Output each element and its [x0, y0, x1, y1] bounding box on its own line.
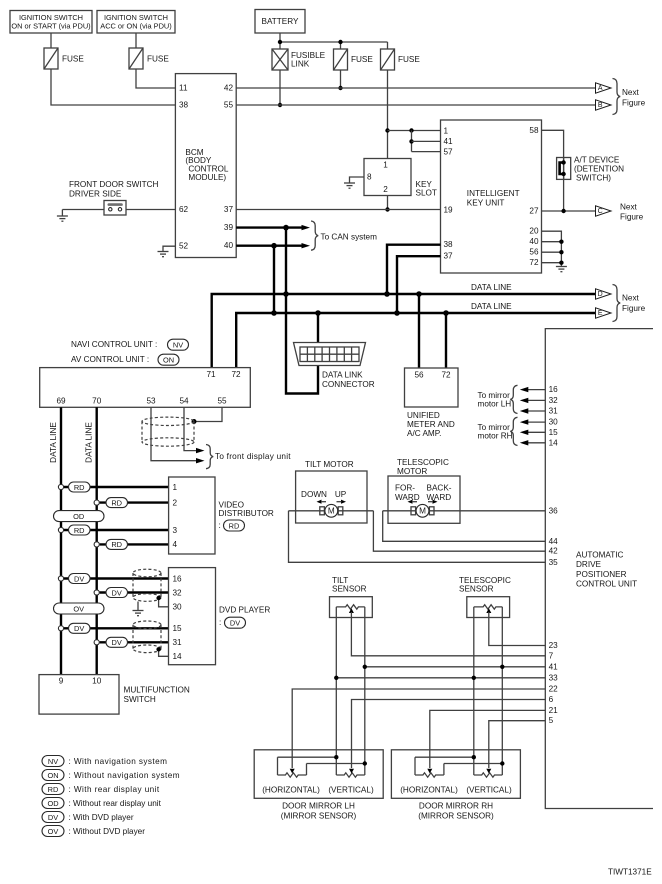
- wire IKU58 to AT device to IKU27 line: [542, 130, 564, 211]
- branch RD3 to VD pin3: [58, 525, 168, 535]
- unified meter and AC amp box: [405, 368, 459, 438]
- shield cable symbol 15/31: [133, 621, 161, 653]
- svg-text:FUSE: FUSE: [398, 55, 420, 64]
- svg-text:72: 72: [529, 258, 539, 267]
- svg-text:C: C: [598, 208, 603, 215]
- svg-text:FRONT DOOR SWITCH: FRONT DOOR SWITCH: [69, 180, 159, 189]
- wire fuse2 to BCM pin11: [136, 69, 175, 88]
- automatic drive positioner control unit box: [545, 329, 653, 809]
- ground key slot: [344, 183, 355, 188]
- svg-text:14: 14: [173, 652, 183, 661]
- svg-text:Figure: Figure: [620, 213, 644, 222]
- wire ignition2 to fuse2: [135, 33, 137, 48]
- wire line B BCM55 to next figure: [236, 104, 595, 106]
- connector OD spanning both wires: [54, 511, 105, 522]
- svg-text:1: 1: [383, 160, 388, 169]
- svg-text:SENSOR: SENSOR: [332, 585, 367, 594]
- svg-text:SWITCH: SWITCH: [124, 695, 156, 704]
- svg-text:71: 71: [206, 370, 216, 379]
- svg-text:2: 2: [383, 185, 388, 194]
- brace mirror motor LH: [510, 385, 517, 413]
- node telescopic sensor left on bus33: [472, 676, 476, 680]
- svg-text:72: 72: [231, 370, 241, 379]
- svg-text:5: 5: [549, 716, 554, 725]
- svg-text:DATA LINE: DATA LINE: [471, 302, 512, 311]
- wire pin33 bus: [336, 677, 545, 679]
- svg-text:: With rear display unit: : With rear display unit: [69, 785, 160, 794]
- svg-text:motor RH: motor RH: [478, 432, 513, 441]
- node mirror LH rail2 junction: [363, 761, 367, 765]
- svg-text::: :: [219, 521, 221, 530]
- BCM box (body control module): [175, 74, 236, 258]
- svg-text::: :: [219, 618, 221, 627]
- svg-text:LINK: LINK: [291, 60, 310, 69]
- svg-text:1: 1: [444, 126, 449, 135]
- svg-text:POSITIONER: POSITIONER: [576, 570, 627, 579]
- svg-text:Figure: Figure: [622, 304, 646, 313]
- svg-text:DV: DV: [48, 813, 58, 822]
- brace next figure AB: [613, 79, 621, 115]
- wire shield to DVD pin14: [159, 650, 169, 657]
- svg-text:A/C AMP.: A/C AMP.: [407, 429, 441, 438]
- wire IKU pin56: [542, 251, 562, 253]
- wire ignition1 to fuse1: [50, 33, 52, 48]
- svg-text:DOOR MIRROR RH: DOOR MIRROR RH: [419, 801, 493, 810]
- svg-text:A/T DEVICE: A/T DEVICE: [574, 155, 620, 164]
- brace mirror motor RH: [510, 417, 517, 445]
- svg-text:: With DVD player: : With DVD player: [69, 813, 134, 822]
- wire fusible link to line B: [279, 70, 281, 105]
- wire shield to DVD pin30: [159, 599, 169, 607]
- shield cable symbol 53/54: [142, 417, 194, 446]
- svg-text:FUSE: FUSE: [147, 55, 169, 64]
- svg-text:A: A: [598, 85, 603, 92]
- wire tilt motor right to pin42: [373, 511, 545, 551]
- svg-text:31: 31: [549, 407, 559, 416]
- svg-text:E: E: [598, 310, 603, 317]
- svg-text:WARD: WARD: [427, 493, 452, 502]
- svg-text:38: 38: [179, 101, 189, 110]
- svg-text:DVD PLAYER: DVD PLAYER: [219, 606, 270, 615]
- wire 69 vertical: [60, 407, 62, 674]
- node tilt sensor left on bus33: [334, 676, 338, 680]
- wire pin14 to mirror motor RH: [527, 442, 546, 444]
- wire data line 1: [212, 294, 596, 368]
- svg-text:FUSE: FUSE: [62, 55, 84, 64]
- legend OV: [42, 826, 145, 837]
- svg-text:36: 36: [549, 506, 559, 515]
- svg-text:41: 41: [444, 137, 454, 146]
- svg-text:(VERTICAL): (VERTICAL): [328, 786, 374, 795]
- legend OD: [42, 798, 162, 809]
- svg-text:AUTOMATIC: AUTOMATIC: [576, 551, 624, 560]
- wire IKU pin72: [542, 262, 562, 264]
- wire pin5 to mirror RH vertical wiper: [489, 721, 546, 768]
- svg-text:DISTRIBUTOR: DISTRIBUTOR: [219, 509, 274, 518]
- svg-text:11: 11: [179, 84, 188, 93]
- svg-text:39: 39: [224, 223, 234, 232]
- svg-text:B: B: [598, 102, 603, 109]
- wire mirror RH rail 2: [444, 763, 502, 765]
- svg-text:Figure: Figure: [622, 98, 646, 107]
- branch DV4 to DVD pin31: [94, 637, 168, 647]
- fuse F1: [44, 48, 84, 69]
- wire telescopic sensor right terminal down to mirror RH: [501, 607, 503, 775]
- node battery junction: [278, 40, 282, 44]
- mirror RH vertical potentiometer: [474, 769, 503, 778]
- svg-text:44: 44: [549, 537, 559, 546]
- wire IKU37 to data line2: [397, 256, 441, 313]
- wire IKU pin1: [388, 130, 441, 132]
- node pin40 junction: [559, 240, 563, 244]
- svg-text:OD: OD: [47, 799, 58, 808]
- fuse F2: [129, 48, 169, 69]
- svg-text:ACC or ON (via PDU): ACC or ON (via PDU): [100, 22, 171, 31]
- arrow E: [596, 308, 612, 318]
- svg-text:69: 69: [56, 396, 66, 405]
- svg-text:NAVI CONTROL UNIT :: NAVI CONTROL UNIT :: [71, 340, 157, 349]
- svg-text:To CAN system: To CAN system: [321, 232, 378, 241]
- svg-text:42: 42: [549, 547, 559, 556]
- svg-text:DV: DV: [112, 638, 122, 647]
- svg-text:CONNECTOR: CONNECTOR: [322, 380, 375, 389]
- svg-text:37: 37: [444, 252, 454, 261]
- wire IKU pin40: [542, 241, 562, 243]
- node mirror LH rail1 junction: [334, 755, 338, 759]
- wire fuse1 to BCM pin38: [51, 69, 175, 105]
- mirror LH horizontal potentiometer: [278, 757, 307, 777]
- branch DV2 to DVD pin32: [94, 588, 168, 598]
- svg-text:16: 16: [173, 574, 183, 583]
- wire pin31 to mirror motor LH: [527, 410, 546, 412]
- svg-text:KEY UNIT: KEY UNIT: [467, 199, 505, 208]
- node mirror RH rail1 junction: [472, 755, 476, 759]
- arrow up-right: [337, 500, 347, 504]
- wire IKU pin41 branch: [411, 131, 413, 152]
- svg-text:1: 1: [173, 483, 178, 492]
- wire unified meter 72: [445, 313, 447, 368]
- svg-text:70: 70: [92, 396, 102, 405]
- wire door switch to BCM62: [126, 209, 175, 211]
- legend RD: [42, 784, 160, 795]
- ground door switch: [57, 210, 68, 222]
- wire pin6 to mirror LH vertical wiper: [352, 700, 546, 769]
- multifunction switch box: [39, 675, 190, 715]
- svg-text:55: 55: [217, 396, 227, 405]
- svg-text:RD: RD: [111, 498, 122, 507]
- wire data line 2: [236, 313, 595, 368]
- wire unified meter 56: [418, 294, 420, 368]
- svg-text:9: 9: [59, 676, 64, 685]
- svg-text:56: 56: [414, 371, 424, 380]
- svg-text:OV: OV: [73, 604, 84, 613]
- branch RD4 to VD pin4: [94, 539, 169, 549]
- node fuse F3 branch: [338, 40, 342, 44]
- wire BCM52 to ground: [163, 246, 175, 251]
- svg-text:BACK-: BACK-: [427, 484, 452, 493]
- svg-text:WARD: WARD: [395, 493, 420, 502]
- svg-text:14: 14: [549, 438, 559, 447]
- wire line A BCM42 to next figure: [236, 87, 595, 89]
- branch RD1 to VD pin1: [58, 482, 168, 492]
- brace to front display: [206, 445, 213, 469]
- wire pin22 to mirror LH horizontal wiper: [292, 689, 545, 768]
- svg-text:OD: OD: [73, 512, 84, 521]
- svg-text:TELESCOPIC: TELESCOPIC: [397, 458, 449, 467]
- svg-text:Next: Next: [622, 88, 640, 97]
- svg-text:UNIFIED: UNIFIED: [407, 411, 440, 420]
- wire IKU38 to data line1: [387, 245, 441, 294]
- svg-text:57: 57: [444, 147, 454, 156]
- box battery: [255, 10, 305, 34]
- key slot box: [364, 159, 437, 198]
- shield cable symbol 16/32: [133, 569, 161, 601]
- video distributor box: [169, 477, 274, 554]
- wire battery bus to fuses: [280, 41, 388, 43]
- svg-text:27: 27: [529, 207, 539, 216]
- svg-text:AV CONTROL UNIT :: AV CONTROL UNIT :: [71, 355, 149, 364]
- branch RD2 to VD pin2: [94, 498, 169, 508]
- svg-text:55: 55: [224, 101, 234, 110]
- data link connector symbol: [294, 343, 366, 366]
- wire tilt sensor right terminal down to mirror LH: [364, 607, 366, 775]
- svg-text:motor LH: motor LH: [478, 400, 512, 409]
- svg-text:37: 37: [224, 205, 234, 214]
- wire vertical CAN39 to data line1 and DLC: [286, 228, 318, 394]
- svg-text:DATA LINE: DATA LINE: [49, 422, 58, 463]
- wire IKU pin20 to ground bus: [542, 231, 562, 266]
- svg-text:(MIRROR SENSOR): (MIRROR SENSOR): [418, 811, 494, 820]
- svg-text:M: M: [419, 507, 426, 516]
- legend DV: [42, 812, 134, 823]
- svg-text:(DETENTION: (DETENTION: [574, 164, 624, 173]
- brace next figure DE: [613, 285, 621, 322]
- telescopic sensor box: [467, 597, 510, 618]
- wire telescopic sensor left terminal down to mirror RH: [473, 607, 475, 775]
- svg-text:15: 15: [173, 624, 183, 633]
- wire mirror LH rail 1: [278, 756, 337, 758]
- wire tilt motor left to pin35: [289, 511, 546, 563]
- motor M telescopic: [383, 504, 546, 517]
- svg-text:FUSE: FUSE: [351, 55, 373, 64]
- wire telescopic left to pin44: [383, 511, 546, 542]
- arrow C: [596, 206, 612, 216]
- svg-text:DRIVER SIDE: DRIVER SIDE: [69, 190, 122, 199]
- arrow A: [596, 83, 612, 93]
- svg-text:DV: DV: [230, 619, 240, 628]
- mirror LH vertical potentiometer: [336, 769, 365, 778]
- svg-text:40: 40: [224, 241, 234, 250]
- svg-text:D: D: [598, 291, 603, 298]
- wire CAN40: [236, 244, 303, 246]
- legend NV: [42, 756, 167, 767]
- svg-text:DATA LINE: DATA LINE: [84, 422, 93, 463]
- wire pin41 bus: [365, 666, 546, 668]
- svg-text:15: 15: [549, 428, 559, 437]
- svg-text:31: 31: [173, 638, 183, 647]
- svg-text:30: 30: [173, 602, 183, 611]
- svg-text:MOTOR: MOTOR: [397, 467, 427, 476]
- brace to CAN system: [311, 221, 318, 250]
- svg-text:NV: NV: [173, 341, 183, 350]
- svg-text:32: 32: [549, 396, 559, 405]
- wire pin21 to mirror RH horizontal wiper: [430, 710, 546, 768]
- box ignition switch ON/START: [10, 11, 92, 34]
- svg-text:M: M: [328, 507, 335, 516]
- svg-text:: Without rear display unit: : Without rear display unit: [69, 799, 162, 808]
- svg-text:(VERTICAL): (VERTICAL): [466, 786, 512, 795]
- arrow B: [596, 100, 612, 110]
- svg-text:TILT MOTOR: TILT MOTOR: [305, 460, 354, 469]
- wire pin23 telescopic wiper: [489, 618, 546, 646]
- svg-text:RD: RD: [229, 521, 240, 530]
- intelligent key unit box: [441, 120, 542, 273]
- node tilt sensor right on bus41: [363, 665, 367, 669]
- wire 53 to front display: [151, 407, 198, 460]
- mirror RH horizontal potentiometer: [415, 757, 444, 777]
- svg-text:MULTIFUNCTION: MULTIFUNCTION: [124, 686, 190, 695]
- svg-text:72: 72: [441, 371, 451, 380]
- wire key slot pin2 to line19: [387, 196, 389, 210]
- svg-text:DATA LINE: DATA LINE: [471, 283, 512, 292]
- svg-text:ON: ON: [163, 356, 174, 365]
- svg-text:ON or START (via PDU): ON or START (via PDU): [11, 22, 90, 31]
- svg-text:DV: DV: [112, 588, 122, 597]
- svg-text:38: 38: [444, 240, 454, 249]
- svg-text:42: 42: [224, 84, 234, 93]
- svg-text:INTELLIGENT: INTELLIGENT: [467, 189, 520, 198]
- svg-text:FOR-: FOR-: [395, 484, 415, 493]
- svg-text:RD: RD: [74, 483, 85, 492]
- wire 55 to shield: [194, 407, 222, 421]
- svg-text:: Without navigation system: : Without navigation system: [69, 771, 180, 780]
- wire IKU pin57: [412, 151, 441, 153]
- svg-text:19: 19: [444, 205, 454, 214]
- wire drop to fuse F4: [387, 42, 389, 49]
- svg-text:SLOT: SLOT: [416, 189, 437, 198]
- door mirror LH box: [254, 750, 383, 799]
- wire 54 to front display: [184, 407, 198, 450]
- svg-text:DRIVE: DRIVE: [576, 560, 602, 569]
- svg-text:DOWN: DOWN: [301, 490, 327, 499]
- wire mirror RH rail 1: [415, 756, 474, 758]
- wire BCM37 to IKU19: [236, 209, 440, 211]
- ground BCM52: [158, 252, 169, 257]
- svg-text:62: 62: [179, 205, 189, 214]
- svg-text:(HORIZONTAL): (HORIZONTAL): [400, 786, 458, 795]
- wire 70 vertical: [95, 407, 97, 674]
- wire CAN39: [236, 226, 303, 228]
- branch DV3 to DVD pin15: [58, 623, 168, 633]
- A/T device (detention switch): [557, 155, 625, 182]
- svg-text:53: 53: [146, 396, 156, 405]
- wire vertical CAN40 to data line2: [273, 246, 275, 313]
- connector OV spanning both wires: [54, 603, 105, 614]
- svg-text:RD: RD: [74, 526, 85, 535]
- svg-text:RD: RD: [111, 540, 122, 549]
- svg-text:DOOR MIRROR LH: DOOR MIRROR LH: [282, 801, 355, 810]
- node mirror RH rail2 junction: [500, 761, 504, 765]
- svg-text:NV: NV: [48, 757, 58, 766]
- tilt motor box: [296, 471, 367, 523]
- fusible link FL: [272, 49, 326, 70]
- svg-text:ON: ON: [47, 771, 58, 780]
- svg-text:BATTERY: BATTERY: [261, 17, 299, 26]
- svg-text:3: 3: [173, 526, 178, 535]
- wire pin15 to mirror motor RH: [527, 431, 546, 433]
- svg-text:4: 4: [173, 540, 178, 549]
- arrow down-left: [317, 500, 327, 504]
- arrow backward-right: [428, 500, 438, 504]
- wire pin16 to mirror motor LH: [527, 389, 546, 391]
- svg-text:DV: DV: [74, 574, 84, 583]
- wire pin7 tilt wiper: [351, 618, 545, 656]
- svg-text:SENSOR: SENSOR: [459, 585, 494, 594]
- node telescopic sensor right on bus41: [500, 665, 504, 669]
- svg-text:UP: UP: [335, 490, 347, 499]
- svg-text:8: 8: [367, 173, 372, 182]
- arrow forward-left: [408, 500, 418, 504]
- AV control unit box: [40, 368, 251, 408]
- svg-text:32: 32: [173, 588, 183, 597]
- legend ON: [42, 770, 180, 781]
- svg-text:7: 7: [549, 651, 554, 660]
- svg-text:33: 33: [549, 673, 559, 682]
- svg-text:10: 10: [92, 676, 102, 685]
- svg-text:RD: RD: [48, 785, 59, 794]
- svg-text:6: 6: [549, 695, 554, 704]
- svg-text:To front display unit: To front display unit: [215, 452, 291, 461]
- motor M tilt: [289, 504, 374, 517]
- wire pin32 to mirror motor LH: [527, 399, 546, 401]
- telescopic motor box: [388, 476, 460, 523]
- svg-text:METER AND: METER AND: [407, 420, 455, 429]
- svg-text:35: 35: [549, 558, 559, 567]
- wire fuse3 to line A: [340, 70, 342, 88]
- svg-text:CONTROL UNIT: CONTROL UNIT: [576, 580, 637, 589]
- svg-text:: With navigation system: : With navigation system: [69, 757, 168, 766]
- svg-text:: Without DVD player: : Without DVD player: [69, 827, 146, 836]
- door mirror RH box: [391, 750, 520, 799]
- svg-text:22: 22: [549, 685, 559, 694]
- ground IKU: [556, 267, 567, 272]
- svg-text:58: 58: [529, 126, 539, 135]
- branch DV1 to DVD pin16: [58, 574, 168, 584]
- wire mirror LH rail 2: [307, 763, 365, 765]
- wire key slot pin8 to ground: [350, 177, 365, 183]
- tilt sensor box: [330, 597, 373, 618]
- svg-text:SWITCH): SWITCH): [576, 173, 611, 182]
- wire battery to fusible link: [279, 33, 281, 49]
- svg-text:DATA LINK: DATA LINK: [322, 370, 363, 379]
- svg-text:56: 56: [529, 248, 539, 257]
- svg-text:30: 30: [549, 418, 559, 427]
- svg-text:(HORIZONTAL): (HORIZONTAL): [262, 786, 320, 795]
- svg-text:20: 20: [529, 227, 539, 236]
- box ignition switch ACC/ON: [97, 11, 175, 34]
- wire data link connector drop: [317, 313, 319, 343]
- svg-text:16: 16: [549, 385, 559, 394]
- svg-text:(MIRROR SENSOR): (MIRROR SENSOR): [281, 811, 357, 820]
- svg-text:OV: OV: [48, 827, 59, 836]
- svg-text:21: 21: [549, 706, 559, 715]
- svg-text:23: 23: [549, 641, 559, 650]
- svg-text:TIWT1371E: TIWT1371E: [608, 868, 652, 877]
- wire IKU27 to next figure: [542, 210, 596, 212]
- svg-text:2: 2: [173, 498, 178, 507]
- ground shield: [133, 602, 144, 616]
- svg-text:Next: Next: [620, 202, 638, 211]
